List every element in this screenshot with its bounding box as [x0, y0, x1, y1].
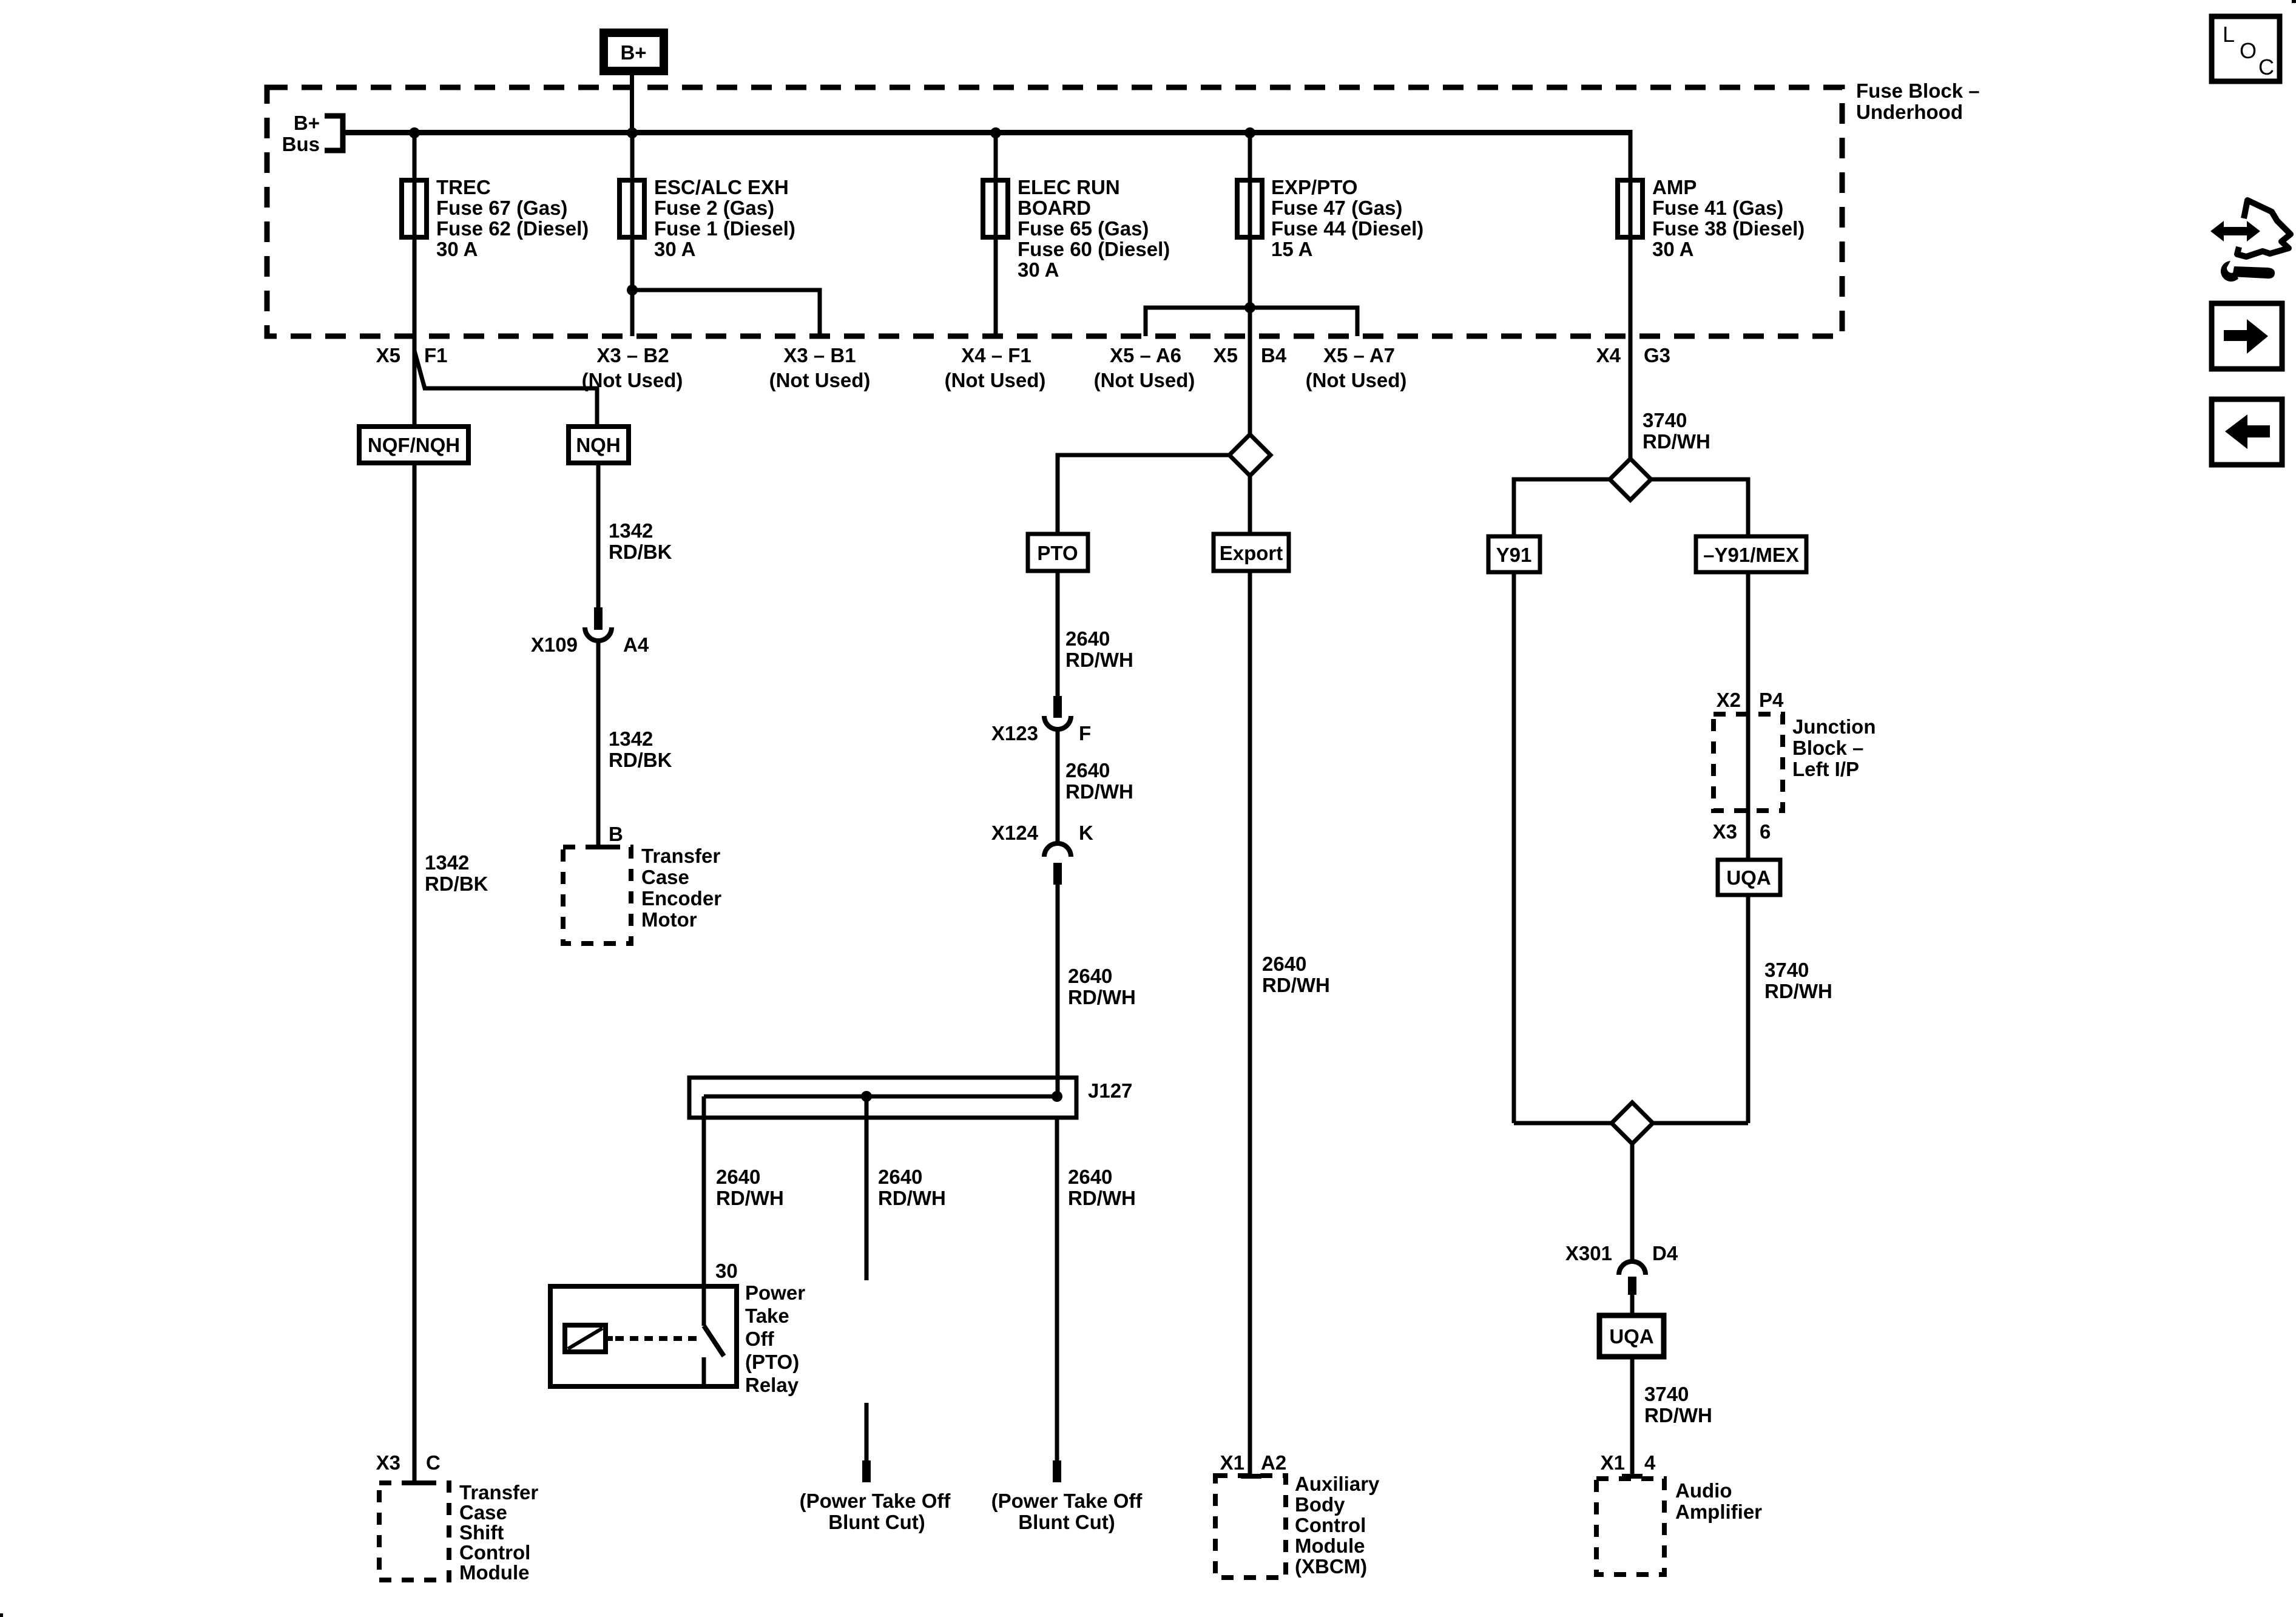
junction dot ESC branch [627, 285, 638, 295]
svg-text:X3: X3 [376, 1451, 400, 1474]
pin label X5-A7 Not Used [1306, 344, 1407, 391]
svg-text:Module: Module [1295, 1534, 1365, 1557]
svg-text:3740: 3740 [1644, 1383, 1689, 1405]
svg-text:30: 30 [715, 1260, 738, 1282]
svg-text:X1: X1 [1220, 1451, 1244, 1474]
svg-text:(Not Used): (Not Used) [1306, 369, 1407, 391]
wire ESC drop [630, 133, 635, 336]
option box UQA upper [1718, 860, 1780, 895]
pin label X1 4 [1601, 1451, 1656, 1474]
svg-text:(PTO): (PTO) [745, 1351, 799, 1373]
icon LOC box [2212, 16, 2280, 81]
pin tick audio amplifier [1622, 1474, 1643, 1479]
svg-text:Amplifier: Amplifier [1675, 1501, 1762, 1523]
svg-text:Block –: Block – [1792, 737, 1863, 759]
svg-text:X5 – A7: X5 – A7 [1323, 344, 1395, 366]
svg-text:B+: B+ [620, 41, 646, 64]
wire UQA to audio amplifier [1630, 1357, 1635, 1476]
option box -Y91/MEX [1696, 536, 1806, 572]
svg-text:X123: X123 [991, 722, 1038, 744]
wire J127 middle drop upper [865, 1096, 869, 1280]
svg-text:C: C [426, 1451, 441, 1474]
svg-text:PTO: PTO [1037, 542, 1078, 564]
splice diamond AMP [1610, 459, 1651, 500]
svg-text:RD/WH: RD/WH [716, 1187, 784, 1209]
fuse ESC/ALC EXH Fuse 2 [620, 176, 795, 260]
svg-text:K: K [1079, 822, 1093, 844]
svg-text:Fuse Block –: Fuse Block – [1856, 79, 1980, 102]
connector X123 F inline [991, 696, 1091, 744]
label wire 3740 RD/WH AMP [1643, 409, 1710, 453]
node B+ Bus bracket [282, 112, 343, 155]
svg-text:1342: 1342 [425, 851, 469, 874]
svg-text:X1: X1 [1601, 1451, 1625, 1474]
wire Y91 down to lower junction [1512, 572, 1516, 1123]
svg-text:Relay: Relay [745, 1374, 799, 1396]
svg-text:Fuse 2 (Gas): Fuse 2 (Gas) [654, 197, 774, 219]
svg-text:RD/BK: RD/BK [425, 873, 488, 895]
blunt cut end middle [862, 1460, 871, 1482]
connector X109 A4 inline [531, 607, 649, 656]
svg-text:30 A: 30 A [1652, 238, 1693, 260]
icon arrow next box [2212, 303, 2282, 369]
wire J127 right drop [1055, 1118, 1059, 1460]
svg-text:Fuse 65 (Gas): Fuse 65 (Gas) [1018, 217, 1149, 240]
pin label X3-B2 Not Used [582, 344, 683, 391]
svg-text:Left I/P: Left I/P [1792, 758, 1859, 780]
svg-text:(Power Take Off: (Power Take Off [800, 1490, 951, 1512]
component Audio Amplifier dashed box [1596, 1479, 1762, 1575]
svg-text:Fuse 44 (Diesel): Fuse 44 (Diesel) [1271, 217, 1423, 240]
svg-text:Transfer: Transfer [459, 1481, 538, 1504]
svg-text:Fuse 41 (Gas): Fuse 41 (Gas) [1652, 197, 1783, 219]
relay PTO relay box [550, 1281, 805, 1396]
blunt cut end right [1053, 1460, 1061, 1482]
svg-text:(XBCM): (XBCM) [1295, 1555, 1367, 1578]
svg-text:Control: Control [1295, 1514, 1366, 1536]
wire EXP stub branch X5-A6 / X5-A7 [1146, 308, 1357, 336]
svg-text:NQF/NQH: NQF/NQH [368, 434, 460, 456]
wire diamond down to X301 [1630, 1144, 1635, 1260]
wire AMP drop [1629, 130, 1633, 336]
svg-text:Encoder: Encoder [641, 887, 721, 910]
svg-text:Take: Take [745, 1305, 789, 1327]
svg-text:Control: Control [459, 1541, 530, 1564]
svg-text:G3: G3 [1644, 344, 1670, 366]
svg-text:30 A: 30 A [1018, 258, 1059, 281]
svg-text:J127: J127 [1088, 1079, 1132, 1102]
svg-text:2640: 2640 [878, 1166, 922, 1188]
svg-text:X2: X2 [1717, 689, 1741, 711]
wire PTO down to X123 [1056, 571, 1060, 696]
component Auxiliary Body Control Module XBCM dashed box [1215, 1473, 1380, 1578]
label wire 3740 RD/WH bottom [1644, 1383, 1712, 1426]
wire B+ bus horizontal [343, 130, 1632, 135]
label wire 1342 RD/BK main [425, 851, 488, 895]
svg-text:O: O [2240, 38, 2257, 63]
pin label X3-B1 Not Used [769, 344, 871, 391]
option box NQF/NQH [359, 427, 468, 463]
svg-text:F: F [1079, 722, 1091, 744]
wire TREC drop [413, 133, 417, 336]
wire below X109 [596, 642, 601, 847]
wire B+ to bus [630, 75, 634, 135]
pin label X2 P4 [1717, 689, 1784, 711]
svg-text:L: L [2223, 22, 2235, 47]
junction dot J127 middle [861, 1091, 872, 1102]
junction dot at ELEC tap [990, 127, 1001, 138]
wire ESC branch to X3-B1 [632, 290, 820, 336]
wire J127 middle drop lower [865, 1403, 869, 1460]
svg-text:4: 4 [1644, 1451, 1656, 1474]
relay switch arm [702, 1287, 724, 1384]
svg-text:Junction: Junction [1792, 715, 1876, 738]
svg-text:Body: Body [1295, 1493, 1345, 1516]
wire UQA down to lower junction [1746, 895, 1751, 1123]
pin label X3 C [376, 1451, 441, 1474]
relay coil [565, 1325, 613, 1352]
wire PTO branch [1058, 455, 1229, 534]
svg-text:X3 – B2: X3 – B2 [596, 344, 669, 366]
svg-text:NQH: NQH [576, 434, 620, 456]
svg-text:30 A: 30 A [654, 238, 695, 260]
svg-text:Blunt Cut): Blunt Cut) [828, 1511, 925, 1533]
svg-text:X124: X124 [991, 822, 1039, 844]
svg-text:UQA: UQA [1726, 866, 1771, 889]
svg-text:X3: X3 [1713, 820, 1737, 843]
svg-text:Auxiliary: Auxiliary [1295, 1473, 1380, 1495]
svg-text:RD/WH: RD/WH [1262, 974, 1330, 996]
pin label X4 G3 [1596, 344, 1670, 366]
svg-text:2640: 2640 [716, 1166, 760, 1188]
wire -Y91/MEX branch [1651, 479, 1748, 536]
svg-text:RD/WH: RD/WH [878, 1187, 946, 1209]
svg-text:Fuse 47 (Gas): Fuse 47 (Gas) [1271, 197, 1402, 219]
label wire 2640 RD/WH [1065, 627, 1133, 671]
component Transfer Case Shift Control Module dashed box [379, 1481, 538, 1584]
option box UQA lower [1599, 1315, 1664, 1357]
svg-text:Export: Export [1220, 542, 1283, 564]
fuse EXP/PTO Fuse 47 [1237, 176, 1423, 260]
component Transfer Case Encoder Motor dashed box [563, 845, 721, 944]
svg-text:ESC/ALC EXH: ESC/ALC EXH [654, 176, 789, 198]
svg-text:15 A: 15 A [1271, 238, 1312, 260]
svg-text:Fuse 62 (Diesel): Fuse 62 (Diesel) [436, 217, 589, 240]
svg-text:Bus: Bus [282, 133, 320, 155]
svg-text:(Not Used): (Not Used) [945, 369, 1046, 391]
svg-text:Case: Case [459, 1501, 507, 1524]
svg-text:Case: Case [641, 866, 689, 888]
junction dot J127 right [1052, 1091, 1062, 1102]
svg-text:(Not Used): (Not Used) [769, 369, 871, 391]
svg-text:Motor: Motor [641, 908, 697, 931]
wire Y91 branch [1514, 479, 1610, 536]
svg-text:3740: 3740 [1764, 959, 1809, 981]
wire Export down to XBCM [1248, 571, 1252, 1476]
label wire 3740 RD/WH right [1764, 959, 1832, 1002]
svg-text:C: C [2258, 55, 2274, 79]
svg-text:30 A: 30 A [436, 238, 478, 260]
pin label X5-A6 Not Used [1094, 344, 1195, 391]
label wire 2640 RD/WH middle drop [878, 1166, 946, 1209]
svg-text:X3 – B1: X3 – B1 [783, 344, 856, 366]
pin label X4-F1 Not Used [945, 344, 1046, 391]
wire J127 left drop to relay [702, 1096, 706, 1287]
svg-text:2640: 2640 [1068, 1166, 1112, 1188]
label wire 2640 RD/WH left drop [716, 1166, 784, 1209]
stray mark bottom left [0, 1613, 3, 1617]
splice diamond lower [1612, 1102, 1653, 1144]
svg-text:TREC: TREC [436, 176, 491, 198]
splice diamond EXP/PTO [1229, 434, 1271, 476]
svg-text:RD/WH: RD/WH [1644, 1404, 1712, 1426]
svg-text:RD/WH: RD/WH [1068, 986, 1136, 1008]
svg-text:D4: D4 [1652, 1242, 1678, 1264]
svg-text:(Power Take Off: (Power Take Off [991, 1490, 1143, 1512]
svg-text:Audio: Audio [1675, 1479, 1732, 1502]
wire J127 internal bus [704, 1095, 1057, 1099]
svg-text:A4: A4 [623, 633, 649, 656]
splice pack J127 [689, 1078, 1132, 1118]
wire X124 down to J127 [1056, 885, 1060, 1096]
fuse AMP Fuse 41 [1618, 176, 1805, 260]
svg-text:Blunt Cut): Blunt Cut) [1018, 1511, 1115, 1533]
option box PTO [1028, 534, 1088, 571]
label wire 1342 RD/BK [609, 727, 672, 771]
wire EXP drop [1248, 133, 1252, 336]
label wire 2640 RD/WH export [1262, 953, 1330, 996]
icon electrical repair wrench [2210, 200, 2291, 282]
wire AMP to diamond [1629, 336, 1633, 461]
svg-text:Fuse 1 (Diesel): Fuse 1 (Diesel) [654, 217, 795, 240]
svg-text:RD/BK: RD/BK [609, 749, 672, 771]
option box Y91 [1488, 536, 1540, 572]
svg-text:Transfer: Transfer [641, 845, 720, 867]
svg-text:3740: 3740 [1643, 409, 1687, 431]
svg-text:AMP: AMP [1652, 176, 1697, 198]
svg-text:–Y91/MEX: –Y91/MEX [1703, 544, 1799, 566]
wire X123 to X124 [1056, 731, 1060, 845]
svg-text:2640: 2640 [1065, 759, 1110, 781]
connector X301 D4 inline [1565, 1242, 1678, 1295]
fuse TREC Fuse 67 [402, 176, 589, 260]
svg-text:1342: 1342 [609, 519, 653, 542]
wire branch slant to NQH [414, 351, 597, 427]
svg-text:UQA: UQA [1609, 1325, 1653, 1348]
svg-text:RD/WH: RD/WH [1065, 780, 1133, 803]
pin label X1 A2 [1220, 1451, 1287, 1474]
svg-text:B4: B4 [1261, 344, 1287, 366]
svg-text:RD/WH: RD/WH [1643, 430, 1710, 453]
junction dot EXP branch [1244, 302, 1255, 313]
svg-text:RD/WH: RD/WH [1068, 1187, 1136, 1209]
junction dot at EXP tap [1244, 127, 1255, 138]
svg-text:Module: Module [459, 1561, 529, 1584]
svg-text:X5: X5 [376, 344, 400, 366]
svg-text:B+: B+ [294, 112, 320, 134]
pin label X5 F1 [376, 344, 448, 366]
junction dot at ESC tap [627, 127, 638, 138]
svg-text:X5: X5 [1214, 344, 1238, 366]
svg-text:2640: 2640 [1065, 627, 1110, 650]
wire J127 feed from X124 [1056, 1073, 1060, 1096]
svg-text:RD/BK: RD/BK [609, 541, 672, 563]
wire ELEC drop [994, 133, 998, 336]
svg-text:BOARD: BOARD [1018, 197, 1091, 219]
svg-text:(Not Used): (Not Used) [1094, 369, 1195, 391]
label Power Take Off Blunt Cut right [991, 1490, 1143, 1533]
svg-text:Shift: Shift [459, 1521, 504, 1544]
svg-text:Underhood: Underhood [1856, 101, 1963, 123]
svg-text:Y91: Y91 [1496, 544, 1532, 566]
svg-text:RD/WH: RD/WH [1065, 649, 1133, 671]
relay coil link dashed [615, 1336, 699, 1341]
svg-text:F1: F1 [424, 344, 448, 366]
option box NQH [569, 427, 629, 463]
pin label X5 B4 [1214, 344, 1287, 366]
label wire 2640 RD/WH [1065, 759, 1133, 803]
component Junction Block Left I/P dashed box [1714, 714, 1876, 811]
label Power Take Off Blunt Cut middle [800, 1490, 951, 1533]
wire NQH branch down [596, 463, 601, 607]
pin label X3 6 [1713, 820, 1771, 843]
wire X301 to UQA [1630, 1295, 1635, 1315]
svg-text:X4: X4 [1596, 344, 1621, 366]
pin tick encoder motor [588, 845, 609, 849]
connector X124 K inline [991, 822, 1093, 885]
svg-text:Off: Off [745, 1328, 775, 1350]
option box Export [1214, 534, 1289, 571]
svg-text:X109: X109 [531, 633, 578, 656]
svg-text:X4 – F1: X4 – F1 [961, 344, 1032, 366]
label wire 2640 RD/WH above J127 [1068, 965, 1136, 1008]
label wire 2640 RD/WH right drop [1068, 1166, 1136, 1209]
svg-text:B: B [609, 823, 623, 845]
stray mark top right [2292, 0, 2296, 3]
svg-text:X5 – A6: X5 – A6 [1110, 344, 1181, 366]
svg-text:1342: 1342 [609, 727, 653, 750]
icon arrow previous box [2212, 399, 2282, 465]
fuse ELEC RUN BOARD Fuse 65 [983, 176, 1170, 281]
pin tick shift control module [404, 1480, 425, 1485]
svg-text:6: 6 [1760, 820, 1771, 843]
wire EXP to diamond [1248, 336, 1252, 436]
svg-text:2640: 2640 [1262, 953, 1306, 975]
svg-text:X301: X301 [1565, 1242, 1612, 1264]
svg-text:ELEC RUN: ELEC RUN [1018, 176, 1120, 198]
label Fuse Block Underhood [1856, 79, 1980, 123]
junction dot at TREC tap [409, 127, 420, 138]
fuse block underhood dashed box [267, 87, 1842, 336]
svg-text:Fuse 38 (Diesel): Fuse 38 (Diesel) [1652, 217, 1805, 240]
svg-text:2640: 2640 [1068, 965, 1112, 987]
label wire 1342 RD/BK [609, 519, 672, 563]
svg-text:A2: A2 [1261, 1451, 1286, 1474]
wire TREC main vertical to bottom [413, 336, 417, 1481]
wire diamond to Export [1248, 476, 1252, 534]
pin tick XBCM [1241, 1474, 1261, 1479]
svg-text:Fuse 60 (Diesel): Fuse 60 (Diesel) [1018, 238, 1170, 260]
svg-text:P4: P4 [1759, 689, 1784, 711]
wire -Y91/MEX down through junction block [1746, 572, 1751, 860]
wire lower junction horizontal [1514, 1121, 1748, 1126]
svg-text:EXP/PTO: EXP/PTO [1271, 176, 1357, 198]
B+ power feed box [604, 33, 664, 71]
svg-text:RD/WH: RD/WH [1764, 980, 1832, 1002]
svg-text:Fuse 67 (Gas): Fuse 67 (Gas) [436, 197, 567, 219]
svg-text:Power: Power [745, 1281, 805, 1304]
